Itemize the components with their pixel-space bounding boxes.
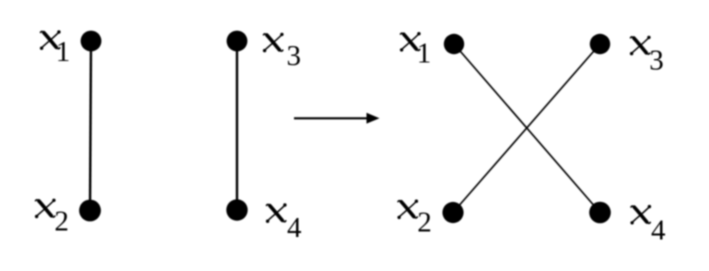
svg-text:4: 4	[651, 214, 666, 246]
svg-text:4: 4	[287, 212, 302, 244]
arrow (transformation)	[294, 113, 380, 124]
label x1 (left graph)	[40, 30, 70, 68]
node x4 (left graph)	[226, 199, 247, 220]
label x3 (left graph)	[263, 33, 301, 72]
node x1 (right graph)	[444, 34, 464, 54]
node x2 (right graph)	[442, 202, 463, 223]
label x4 (right graph)	[630, 205, 666, 247]
svg-text:2: 2	[54, 206, 69, 238]
svg-text:2: 2	[417, 207, 432, 239]
svg-text:3: 3	[287, 40, 302, 72]
svg-text:3: 3	[649, 44, 664, 76]
node x4 (right graph)	[589, 202, 611, 224]
label x2 (left graph)	[35, 199, 69, 238]
node x1 (left graph)	[81, 31, 102, 52]
label x2 (right graph)	[397, 200, 431, 239]
node x3 (left graph)	[227, 31, 248, 52]
wire edge x1-x2 (left graph)	[90, 41, 91, 210]
svg-text:1: 1	[56, 36, 71, 68]
wire edge x1-x4 (right graph)	[454, 44, 600, 213]
wire edge x3-x2 (right graph)	[453, 44, 600, 213]
label x1 (right graph)	[400, 32, 431, 70]
node x2 (left graph)	[79, 200, 101, 222]
wire edge x3-x4 (left graph)	[236, 41, 238, 210]
label x3 (right graph)	[630, 36, 664, 77]
node x3 (right graph)	[590, 34, 610, 54]
svg-text:1: 1	[417, 38, 432, 70]
label x4 (left graph)	[266, 203, 302, 244]
